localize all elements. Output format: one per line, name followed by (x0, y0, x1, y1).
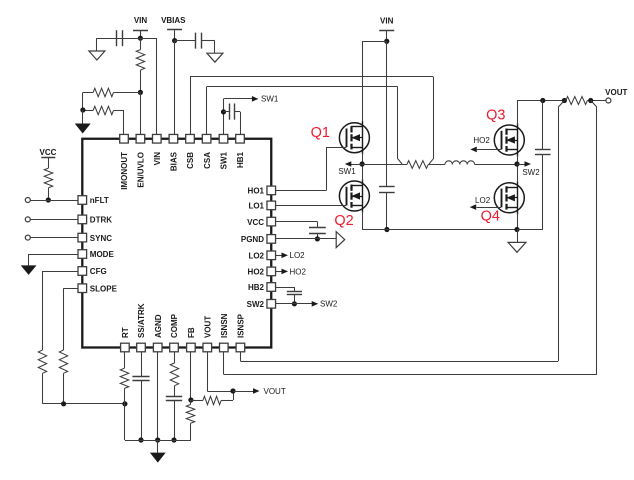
transistor Q4 (boost low-side) (494, 181, 524, 214)
svg-text:COMP: COMP (170, 313, 179, 338)
capacitor C5 (output) (517, 101, 551, 230)
node VOUT feedback junction (230, 388, 235, 393)
wire AGND rail (125, 440, 191, 442)
wire CSA to sense resistor (207, 87, 403, 165)
pin SW2 (right) (247, 300, 276, 310)
pin IMONOUT (top) (120, 134, 130, 189)
resistor R3 (IMONOUT load) (83, 106, 124, 138)
wire Q3 source to Q4 drain (517, 155, 519, 183)
svg-text:SW1: SW1 (338, 167, 356, 176)
svg-text:HO1: HO1 (248, 187, 265, 196)
wire rail to ground (157, 440, 159, 453)
resistor R12 (feedback bottom) (186, 400, 194, 440)
pin HB1 (top) (236, 134, 246, 168)
wire AGND (157, 348, 159, 441)
svg-text:Q3: Q3 (486, 108, 505, 124)
svg-text:VIN: VIN (380, 17, 394, 26)
ground (AGND, solid) (150, 453, 166, 463)
wire FB down (190, 348, 192, 401)
svg-text:SW1: SW1 (261, 95, 279, 104)
wire CFG down (43, 271, 83, 350)
transistor Q1 (buck high-side) (339, 121, 369, 154)
node resistor ground junction (80, 107, 85, 112)
svg-text:Q4: Q4 (481, 208, 500, 224)
pin HO2 (right) (248, 267, 276, 277)
capacitor C9 (COMP) (166, 386, 182, 440)
svg-text:HO2: HO2 (473, 136, 490, 145)
node HB2 cap to SW2 (292, 301, 297, 306)
svg-text:CSA: CSA (203, 152, 212, 169)
node C4 to PGND rail (384, 227, 389, 232)
wire Q1 source to Q2 drain (362, 153, 364, 181)
net SW2 (arrow at switch node) (517, 161, 540, 177)
svg-text:VCC: VCC (40, 148, 57, 157)
capacitor C1 (VIN input filter) (97, 30, 141, 46)
net VOUT (arrow at feedback) (233, 387, 286, 396)
pin VCC (right) (247, 217, 275, 227)
node VBIAS junction (172, 38, 177, 43)
pin SS/ATRK (bottom) (137, 303, 147, 352)
capacitor C4 (VIN power bypass) (379, 41, 395, 229)
resistor R9 (RT timing) (120, 348, 128, 441)
pin COMP (bottom) (170, 313, 180, 351)
label Q1 (311, 125, 330, 141)
wire VOUT pin down (207, 348, 233, 392)
pin VOUT (bottom) (203, 316, 213, 352)
capacitor C3 (bootstrap HB1-SW1) (224, 104, 241, 139)
node SW1 bootstrap junction (221, 109, 226, 114)
net SW2 (arrow at pin) (312, 300, 338, 309)
pin CFG (left) (78, 267, 107, 277)
svg-text:VOUT: VOUT (204, 316, 213, 338)
op-amp U1 controller IC body (82, 139, 271, 348)
svg-text:DTRK: DTRK (90, 216, 112, 225)
capacitor C7 (HB2 bootstrap) (271, 287, 302, 304)
wire junction to EN/UVLO pin (140, 92, 142, 138)
svg-text:VOUT: VOUT (264, 387, 286, 396)
node COMP to AGND rail (171, 437, 176, 442)
pin CSA (top) (202, 134, 212, 168)
net LO2 (arrow at Q4 gate) (470, 196, 502, 210)
svg-text:Q1: Q1 (311, 125, 330, 141)
net HO2 (arrow at Q3 gate) (470, 136, 501, 152)
node VIN power junction (384, 39, 389, 44)
resistor R1 (VIN to EN/UVLO) (136, 38, 144, 92)
capacitor C2 (VBIAS bypass) (175, 33, 215, 49)
capacitor C6 (VCC bypass) (271, 222, 326, 239)
resistor R2 (EN/UVLO lower divider) (83, 88, 141, 110)
pin FB (bottom) (187, 327, 197, 352)
svg-text:SYNC: SYNC (90, 234, 112, 243)
wire SW1 to sense resistor (362, 164, 407, 166)
node AGND rail junction (155, 437, 160, 442)
power terminal VIN (input) (133, 16, 148, 38)
ground (MODE, solid) (21, 265, 37, 275)
svg-text:LO2: LO2 (248, 252, 264, 261)
ground (VBIAS bypass, open) (207, 53, 223, 62)
node SS cap to AGND rail (138, 437, 143, 442)
svg-text:BIAS: BIAS (170, 151, 179, 171)
wire C2 to ground (214, 41, 216, 54)
net SW1 (arrow at switch node) (338, 161, 362, 176)
svg-text:RT: RT (121, 327, 130, 338)
wire DTRK (30, 219, 82, 221)
svg-text:VBIAS: VBIAS (161, 16, 186, 25)
pin MODE (left) (78, 250, 114, 260)
svg-text:HO2: HO2 (290, 267, 307, 276)
svg-text:MODE: MODE (90, 250, 115, 259)
svg-text:LO1: LO1 (248, 202, 264, 211)
terminal nFLT (open circle) (25, 198, 30, 203)
svg-text:HB2: HB2 (248, 283, 265, 292)
ground (power stage, open) (508, 242, 526, 252)
ground (divider, solid) (75, 124, 91, 134)
pin SW1 (top) (219, 134, 229, 169)
svg-text:SW2: SW2 (522, 168, 540, 177)
wire sense to inductor (428, 164, 445, 166)
pin LO1 (right) (248, 201, 275, 211)
svg-text:ISNSN: ISNSN (220, 313, 229, 338)
capacitor C8 (soft-start) (132, 348, 149, 441)
svg-text:VIN: VIN (153, 152, 162, 166)
label Q2 (334, 213, 353, 229)
resistor R10 (COMP) (170, 348, 178, 386)
power terminal VIN (power stage) (379, 17, 394, 42)
pin HB2 (right) (248, 283, 276, 293)
node VCC cap to PGND (315, 236, 320, 241)
wire VIN to Q1 drain (362, 41, 387, 122)
node ISNSP tap (562, 98, 567, 103)
svg-text:SS/ATRK: SS/ATRK (137, 303, 146, 338)
wire Q3 drain to VOUT rail (517, 101, 519, 126)
wire SW1 pin stub (224, 99, 253, 139)
pin AGND (bottom) (153, 314, 163, 352)
svg-text:VCC: VCC (247, 218, 264, 227)
transistor Q3 (boost high-side) (494, 124, 524, 157)
wire PGND rail (Q2 to Q4) (362, 229, 517, 231)
pin HO1 (right) (248, 186, 276, 196)
wire ISNSN kelvin route (224, 101, 597, 375)
wire MODE to ground (29, 254, 83, 265)
pin DTRK (left) (78, 215, 112, 225)
pin EN/UVLO (top) (136, 134, 146, 187)
resistor R11 (feedback top) (191, 391, 234, 405)
svg-text:nFLT: nFLT (90, 196, 109, 205)
net SW1 (arrow at pin) (252, 95, 279, 104)
terminal DTRK (open circle) (25, 217, 30, 222)
node VIN junction (138, 36, 143, 41)
power terminal VBIAS (161, 16, 186, 41)
svg-text:AGND: AGND (154, 314, 163, 338)
pin VIN (top) (153, 134, 163, 165)
ground (VIN filter, open) (89, 51, 105, 60)
resistor R6 (SLOPE program) (59, 350, 67, 404)
wire SW2 pin stub (271, 303, 312, 305)
node RT junction (122, 401, 127, 406)
svg-text:CSB: CSB (186, 152, 195, 169)
wire program resistors to RT node (43, 403, 125, 405)
wire Q2 source to PGND rail (362, 211, 364, 230)
node SW2 junction (514, 161, 519, 166)
transistor Q2 (buck low-side) (339, 180, 369, 213)
terminal SYNC (open circle) (25, 235, 30, 240)
label VOUT terminal (605, 88, 627, 97)
pin SYNC (left) (78, 233, 112, 243)
svg-text:EN/UVLO: EN/UVLO (137, 152, 146, 188)
node EN/UVLO divider junction (138, 90, 143, 95)
wire LO1 to Q2 gate (271, 205, 346, 207)
node nFLT junction (46, 197, 51, 202)
wire nFLT (30, 200, 82, 202)
resistor R4 (nFLT pull-up) (44, 168, 52, 200)
svg-text:HB1: HB1 (236, 151, 245, 168)
wire HO1 to Q1 gate (271, 147, 346, 190)
node ISNSN tap (588, 98, 593, 103)
pin RT (bottom) (121, 327, 131, 352)
node SW1 power junction (360, 161, 365, 166)
svg-text:SW1: SW1 (220, 151, 229, 169)
net HO2 (arrow at pin) (271, 267, 306, 276)
net LO2 (arrow at pin) (271, 251, 305, 260)
svg-text:LO2: LO2 (290, 251, 306, 260)
wire CSB to sense resistor (190, 77, 434, 165)
wire C1 to ground (96, 38, 98, 51)
pin BIAS (top) (169, 134, 179, 171)
pin CSB (top) (186, 134, 196, 168)
wire PGND (271, 238, 336, 240)
label Q3 (486, 108, 505, 124)
node FB junction (188, 397, 193, 402)
svg-text:CFG: CFG (90, 267, 107, 276)
pin SLOPE (left) (78, 284, 118, 294)
resistor R7 (current sense) (407, 161, 428, 169)
power terminal VCC (40, 148, 57, 168)
ground PGND (open right arrow) (336, 232, 345, 248)
svg-text:VOUT: VOUT (605, 88, 627, 97)
pin LO2 (right) (248, 251, 275, 261)
node SLOPE-CFG junction (61, 401, 66, 406)
svg-text:PGND: PGND (241, 235, 264, 244)
wire VBIAS to BIAS pin (174, 41, 176, 139)
svg-text:HO2: HO2 (248, 268, 265, 277)
svg-text:Q2: Q2 (334, 213, 353, 229)
wire VIN node to VIN pin (140, 38, 156, 139)
wire SLOPE down (64, 288, 83, 350)
resistor R8 (output current sense) (566, 97, 588, 105)
pin ISNSN (bottom) (220, 313, 230, 351)
wire Q4 to ground (517, 230, 519, 243)
pin ISNSP (bottom) (236, 313, 246, 351)
svg-text:ISNSP: ISNSP (237, 313, 246, 338)
pin nFLT (left) (78, 196, 109, 206)
inductor L1 (445, 161, 475, 165)
svg-text:LO2: LO2 (475, 196, 491, 205)
wire VOUT rail (517, 100, 606, 102)
svg-text:SLOPE: SLOPE (90, 284, 118, 293)
pin PGND (right) (241, 235, 276, 245)
wire inductor to SW2 (475, 164, 517, 166)
node output cap junction (540, 98, 545, 103)
svg-text:SW2: SW2 (320, 300, 338, 309)
svg-text:FB: FB (187, 327, 196, 338)
svg-text:IMONOUT: IMONOUT (120, 152, 129, 190)
wire Q4 source to PGND rail (517, 213, 519, 230)
label Q4 (481, 208, 500, 224)
wire SYNC (30, 237, 82, 239)
wire ISNSP kelvin route (240, 101, 564, 362)
terminal VOUT (open circle) (606, 98, 611, 103)
resistor R5 (CFG program) (38, 350, 46, 404)
wire to ground (82, 110, 84, 124)
svg-text:VIN: VIN (134, 16, 148, 25)
svg-text:SW2: SW2 (247, 300, 265, 309)
node Q4 rail junction (514, 227, 519, 232)
